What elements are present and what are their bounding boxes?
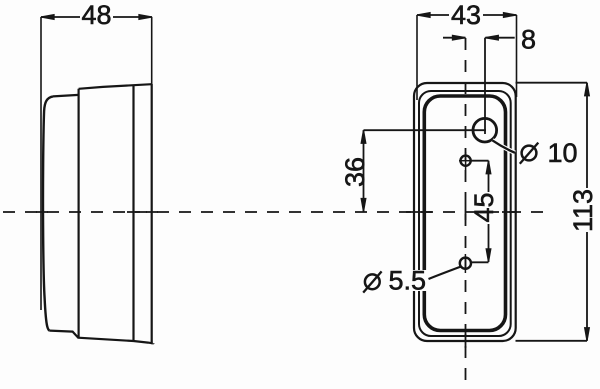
- svg-text:8: 8: [521, 25, 536, 55]
- svg-text:43: 43: [451, 0, 481, 30]
- svg-text:10: 10: [548, 138, 578, 168]
- svg-text:113: 113: [568, 189, 598, 232]
- svg-text:48: 48: [81, 0, 111, 30]
- svg-text:36: 36: [340, 157, 370, 187]
- svg-text:5.5: 5.5: [389, 266, 427, 296]
- svg-text:45: 45: [469, 192, 499, 222]
